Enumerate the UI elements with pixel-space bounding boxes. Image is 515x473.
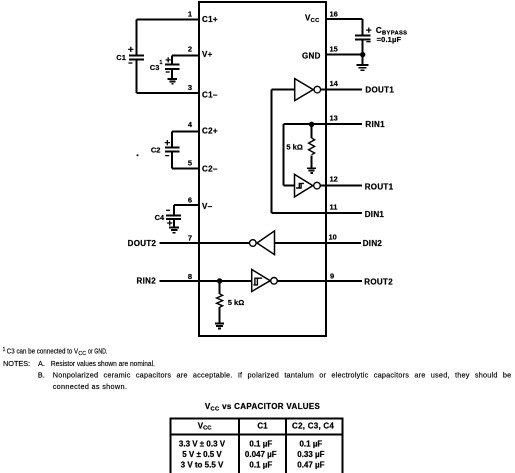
svg-text:Resistor values shown are nomi: Resistor values shown are nominal. — [51, 359, 155, 368]
svg-text:0.1 µF: 0.1 µF — [299, 440, 322, 449]
svg-text:CC: CC — [78, 351, 86, 357]
svg-text:=0.1µF: =0.1µF — [377, 35, 402, 44]
svg-text:15: 15 — [330, 45, 338, 54]
svg-text:DIN1: DIN1 — [365, 210, 385, 219]
svg-text:0.33 µF: 0.33 µF — [297, 450, 324, 459]
svg-text:VCC vs CAPACITOR VALUES: VCC vs CAPACITOR VALUES — [205, 402, 321, 412]
svg-text:ROUT1: ROUT1 — [365, 182, 394, 191]
svg-text:2: 2 — [188, 45, 192, 54]
svg-text:C3 can be connected to V: C3 can be connected to V — [7, 347, 79, 356]
svg-text:7: 7 — [188, 233, 192, 242]
svg-text:6: 6 — [188, 196, 192, 205]
svg-text:5 kΩ: 5 kΩ — [286, 143, 302, 152]
svg-text:Nonpolarized ceramic capacitor: Nonpolarized ceramic capacitors are acce… — [53, 370, 512, 379]
svg-text:B.: B. — [38, 370, 45, 379]
svg-text:0.1 µF: 0.1 µF — [249, 440, 272, 449]
svg-text:11: 11 — [330, 203, 338, 212]
svg-text:C1: C1 — [116, 53, 126, 62]
svg-text:RIN2: RIN2 — [137, 277, 157, 286]
svg-text:0.47 µF: 0.47 µF — [297, 461, 324, 470]
svg-text:3 V to 5.5 V: 3 V to 5.5 V — [181, 461, 224, 470]
svg-text:RIN1: RIN1 — [365, 120, 385, 129]
svg-text:DIN2: DIN2 — [363, 239, 383, 248]
svg-text:NOTES:: NOTES: — [3, 359, 30, 368]
svg-text:V+: V+ — [202, 50, 213, 59]
svg-text:V–: V– — [202, 202, 213, 211]
svg-text:0.047 µF: 0.047 µF — [245, 450, 277, 459]
svg-text:10: 10 — [329, 233, 337, 242]
svg-text:C1–: C1– — [202, 90, 218, 99]
svg-text:9: 9 — [330, 271, 334, 280]
svg-text:DOUT2: DOUT2 — [128, 239, 157, 248]
svg-text:16: 16 — [330, 10, 338, 19]
svg-text:DOUT1: DOUT1 — [365, 86, 394, 95]
svg-text:5: 5 — [188, 158, 192, 167]
svg-text:C2: C2 — [151, 146, 161, 155]
svg-text:or GND.: or GND. — [88, 347, 108, 356]
svg-text:3.3 V ± 0.3 V: 3.3 V ± 0.3 V — [179, 440, 226, 449]
svg-text:A.: A. — [38, 359, 45, 368]
svg-text:1: 1 — [188, 10, 192, 19]
svg-text:ROUT2: ROUT2 — [364, 278, 393, 287]
svg-text:1: 1 — [3, 347, 6, 353]
svg-text:GND: GND — [302, 52, 321, 61]
svg-text:3: 3 — [188, 83, 192, 92]
svg-text:5 V ± 0.5 V: 5 V ± 0.5 V — [182, 450, 222, 459]
svg-text:C2+: C2+ — [202, 126, 218, 135]
svg-text:14: 14 — [330, 79, 339, 88]
svg-text:5 kΩ: 5 kΩ — [228, 298, 244, 307]
svg-text:8: 8 — [188, 272, 192, 281]
svg-text:C4: C4 — [155, 213, 165, 222]
svg-text:C2–: C2– — [202, 164, 218, 173]
svg-text:12: 12 — [330, 175, 338, 184]
svg-text:C2, C3, C4: C2, C3, C4 — [292, 421, 334, 430]
svg-text:0.1 µF: 0.1 µF — [249, 461, 272, 470]
svg-text:C1: C1 — [257, 421, 268, 430]
svg-text:C1+: C1+ — [202, 15, 218, 24]
svg-text:connected as shown.: connected as shown. — [53, 382, 127, 391]
svg-text:13: 13 — [330, 113, 338, 122]
